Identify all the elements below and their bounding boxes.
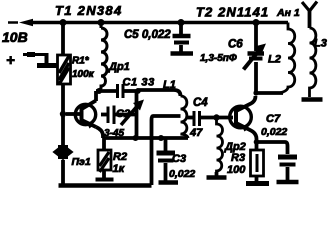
wire top supply rail [28, 21, 288, 24]
resistor R2 [96, 138, 114, 180]
svg-text:10В: 10В [2, 29, 28, 45]
svg-text:L3: L3 [314, 38, 327, 50]
svg-text:С2: С2 [116, 108, 130, 120]
node base T2 junction [213, 114, 219, 120]
resistor R3 [246, 142, 269, 184]
transistor T1 [66, 101, 96, 129]
svg-text:R3: R3 [231, 152, 245, 164]
capacitor C3 [157, 138, 179, 183]
svg-text:С6: С6 [228, 39, 243, 51]
capacitor C2 trimmer [101, 100, 144, 126]
svg-text:С4: С4 [193, 97, 208, 109]
wire L1 tap [152, 116, 181, 185]
choke Dr1 [98, 19, 108, 91]
transistor T2 [230, 96, 257, 142]
resistor R1 [58, 55, 71, 84]
wire R1 bottom to base node [61, 84, 65, 114]
choke Dr2 [207, 118, 227, 178]
node tap-rail junction [149, 135, 154, 140]
svg-text:Т1 2N384: Т1 2N384 [55, 3, 123, 18]
svg-text:0,022: 0,022 [169, 168, 195, 180]
node emitter T2 junction [254, 139, 260, 145]
capacitor C1 [118, 84, 124, 98]
svg-text:R1*: R1* [72, 56, 90, 67]
wire crystal to bottom rail corner [61, 160, 65, 184]
svg-text:100к: 100к [72, 69, 95, 80]
node C3 junction [158, 135, 164, 141]
capacitor C7 [277, 157, 299, 182]
svg-text:0,022: 0,022 [261, 126, 287, 138]
capacitor C6 trimmer [244, 19, 267, 93]
node collector junction [96, 88, 102, 94]
svg-text:Др1: Др1 [108, 61, 130, 73]
svg-text:1к: 1к [113, 163, 126, 175]
ground L3 [302, 97, 323, 102]
wire C1 to tank corner [124, 89, 138, 93]
svg-text:С1 33: С1 33 [123, 77, 155, 89]
node junction rail-R1 [60, 19, 67, 26]
svg-text:С3: С3 [172, 153, 186, 165]
svg-text:+: + [6, 52, 15, 69]
svg-text:R2: R2 [113, 151, 127, 163]
wire base node down to crystal [61, 114, 65, 146]
wire L2 bottom to collector node [256, 91, 283, 95]
connector X1 [23, 53, 57, 66]
node tank2 bottom [253, 90, 258, 95]
svg-text:1,3-5пФ: 1,3-5пФ [200, 53, 237, 64]
svg-text:Т2 2N1141: Т2 2N1141 [196, 5, 269, 20]
wire emitter bottom run [103, 136, 188, 140]
wire tank top to L1 [137, 90, 181, 96]
crystal PE1 [54, 145, 72, 159]
node supply arrow [19, 19, 33, 26]
node base junction [60, 111, 66, 117]
svg-text:L1: L1 [163, 79, 176, 91]
inductor L1 [181, 96, 189, 138]
capacitor C4 [186, 111, 233, 126]
wire T1 collector [94, 91, 98, 101]
svg-text:47: 47 [189, 127, 203, 139]
svg-text:Пэ1: Пэ1 [72, 156, 91, 168]
svg-text:100: 100 [227, 164, 246, 176]
wire bottom ground rail [59, 183, 152, 188]
capacitor C5 [171, 19, 194, 54]
wire minus dash [8, 21, 18, 24]
wire collector node to C1 [96, 89, 116, 93]
svg-text:Ан 1: Ан 1 [276, 7, 300, 19]
svg-text:С5 0,022: С5 0,022 [124, 29, 171, 41]
wire tank left vertical [135, 91, 139, 139]
svg-text:L2: L2 [268, 54, 281, 66]
wire T1 emitter down [96, 127, 103, 138]
svg-text:С7: С7 [266, 113, 281, 125]
antenna An1 [302, 2, 317, 29]
inductor L2 [280, 23, 295, 94]
wire R1 top lead [61, 23, 65, 56]
node tank bottom junction [133, 135, 139, 141]
node tank corner [135, 88, 141, 94]
inductor L3 [310, 28, 316, 97]
wire T2 emitter branch [257, 142, 288, 154]
